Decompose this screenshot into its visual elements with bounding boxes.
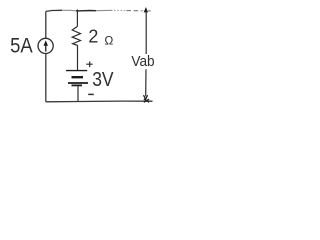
battery V1 plates — [66, 71, 88, 86]
wire left vertical lower — [45, 54, 47, 102]
Vab arrowhead down at node b — [144, 95, 148, 99]
svg-text:Ω: Ω — [104, 33, 113, 47]
Vab measurement line upper — [145, 12, 147, 54]
wire resistor top stub — [76, 10, 78, 27]
Vab arrowhead up at node a — [144, 7, 148, 12]
current source I1 arrow up — [44, 40, 49, 51]
wire top dashed segments to node a — [114, 9, 151, 12]
current source I1 circle — [38, 38, 53, 53]
wire bottom rail — [46, 100, 153, 103]
wire top faded segment — [96, 9, 113, 11]
svg-text:2: 2 — [88, 25, 98, 46]
wire left vertical upper — [45, 11, 47, 38]
svg-text:3V: 3V — [92, 68, 114, 91]
resistor R 2ohm zigzag — [72, 26, 80, 45]
node b x-mark — [144, 99, 149, 102]
wire battery bottom stub — [77, 86, 79, 101]
Vab measurement line lower — [145, 69, 147, 96]
svg-text:5A: 5A — [10, 33, 33, 57]
wire top rail from source to resistor node — [46, 10, 62, 11]
wire resistor to battery — [77, 46, 79, 71]
svg-text:Vab: Vab — [131, 54, 154, 70]
battery minus sign — [88, 93, 94, 95]
battery plus sign — [86, 61, 92, 67]
